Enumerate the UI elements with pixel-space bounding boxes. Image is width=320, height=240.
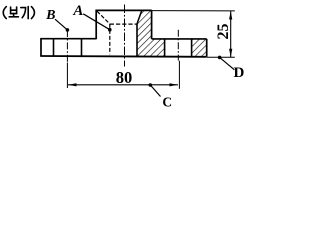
hangul BO: bieup bottom bar: [11, 13, 17, 15]
leader dot B: [66, 28, 70, 32]
hatched section: boss column + lower-left block (L-shape): [137, 11, 165, 57]
center line B (bolt hole left, chain): [66, 30, 68, 63]
hidden line: countersink cone (dashed diagonal): [97, 11, 110, 24]
flange outline: bottom edge: [40, 55, 207, 58]
leader dot A: [108, 28, 112, 32]
bolt-hole edge line left 1: [53, 39, 55, 56]
hidden line: counterbore bottom (dashed horizontal): [110, 23, 137, 25]
extension line bottom right (for dim 25): [207, 56, 235, 58]
bore wall (section, solid): [136, 24, 138, 57]
extension line for dim 80 left: [66, 63, 68, 89]
main center line (chain): [124, 5, 126, 67]
leader B: [55, 19, 67, 30]
countersink cone edge (section, solid): [137, 11, 142, 24]
flange outline: left edge: [40, 39, 42, 56]
svg-text:80: 80: [116, 68, 133, 87]
hidden line: bore wall (dashed vertical): [109, 24, 111, 54]
hangul BO: o vowel tick: [13, 14, 15, 17]
hangul BO: bieup middle bar: [11, 9, 17, 11]
bolt-hole edge line left 2: [81, 39, 83, 57]
arrow right of dim 80: [170, 83, 179, 86]
hangul BO: bieup right vertical: [16, 7, 18, 14]
boss right edge: [151, 10, 153, 39]
flange top edge right (sectioned side): [152, 38, 207, 40]
leader dot D: [218, 56, 222, 60]
hatched section: right strip of flange plate: [192, 39, 207, 57]
svg-text:A: A: [72, 3, 83, 19]
caption (보기) drawn strokes: [3, 7, 34, 19]
hangul BO: o vowel bar: [9, 16, 18, 18]
leader A: [83, 14, 110, 30]
extension line for dim 80 right: [178, 61, 180, 89]
dimension line 25: [230, 11, 232, 57]
dimension line 80: [68, 84, 178, 86]
hangul BO: bieup left vertical: [10, 7, 12, 14]
svg-text:D: D: [233, 65, 244, 81]
boss left edge: [95, 10, 97, 39]
bolt hole right edge (section): [191, 39, 193, 57]
leader D: [220, 57, 235, 69]
flange right edge: [206, 39, 208, 57]
leader C: [150, 85, 160, 97]
arrow bottom of dim 25: [229, 49, 232, 58]
flange outline: top edge left (external view): [40, 38, 96, 40]
open paren: [3, 7, 6, 19]
extension line top (for dim 25): [152, 10, 235, 12]
bolt hole left edge (section): [164, 39, 166, 57]
svg-text:B: B: [45, 8, 55, 23]
center line bolt hole right (chain): [177, 30, 179, 61]
hangul GI: i vowel: [27, 7, 29, 19]
arrow top of dim 25: [229, 11, 232, 20]
hangul GI: giyeok: [21, 8, 26, 18]
leader dot C: [149, 83, 153, 87]
boss top edge: [95, 9, 151, 11]
svg-text:C: C: [162, 95, 172, 110]
svg-text:25: 25: [215, 24, 232, 40]
arrow left of dim 80: [68, 83, 77, 86]
close paren: [31, 7, 34, 19]
